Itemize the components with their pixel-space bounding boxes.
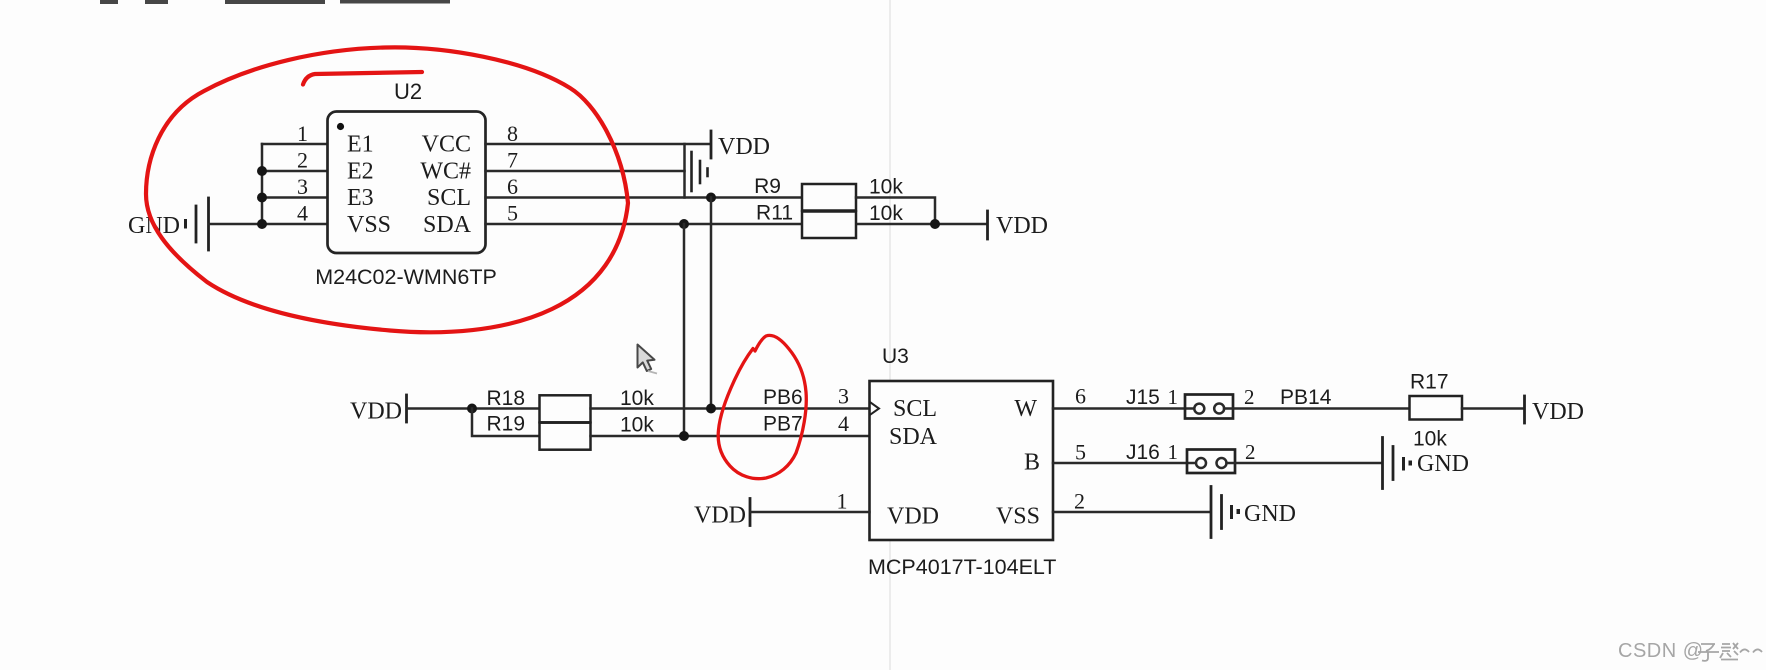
resistor R11 body bbox=[802, 212, 856, 239]
resistor R18 body bbox=[540, 395, 591, 422]
node PB6/SCL bus junction bbox=[706, 404, 716, 414]
red annotation underline stroke bbox=[303, 72, 422, 85]
wire VDD to R18 bbox=[408, 407, 540, 410]
chip U3 body bbox=[870, 381, 1054, 540]
svg-text:VDD: VDD bbox=[718, 134, 770, 160]
svg-text:GND: GND bbox=[1417, 451, 1469, 477]
wire WC# pin 7 bbox=[486, 170, 685, 173]
chip U2 body bbox=[328, 112, 486, 254]
svg-text:2: 2 bbox=[1244, 385, 1255, 409]
svg-text:U3: U3 bbox=[882, 345, 909, 368]
resistor R9 body bbox=[802, 184, 856, 211]
svg-text:J15: J15 bbox=[1126, 386, 1160, 409]
svg-text:2: 2 bbox=[1245, 440, 1256, 464]
svg-text:E3: E3 bbox=[347, 185, 374, 211]
wire U3 W pin 6 to J15 bbox=[1053, 407, 1196, 410]
svg-text:1: 1 bbox=[1168, 440, 1179, 464]
tildes bbox=[1740, 649, 1762, 652]
svg-text:E1: E1 bbox=[347, 132, 374, 158]
junction dot pin3 tie bbox=[257, 193, 267, 203]
svg-text:1: 1 bbox=[1168, 385, 1179, 409]
svg-text:VDD: VDD bbox=[887, 504, 939, 530]
jumper J16 body bbox=[1187, 450, 1235, 474]
svg-text:VDD: VDD bbox=[1532, 399, 1584, 425]
wire R9 out bbox=[856, 198, 935, 225]
svg-text:E2: E2 bbox=[347, 159, 374, 185]
power VDD (pull-ups) bbox=[988, 211, 1049, 239]
svg-text:R19: R19 bbox=[486, 413, 525, 436]
red annotation loop around PB6/PB7 bbox=[718, 335, 806, 478]
svg-text:5: 5 bbox=[507, 201, 518, 226]
glyph zi bbox=[1698, 644, 1719, 661]
svg-text:U2: U2 bbox=[394, 79, 422, 104]
glyph fan bbox=[1720, 643, 1738, 660]
power VDD (U3 pin1) bbox=[694, 499, 750, 529]
svg-text:5: 5 bbox=[1075, 440, 1086, 465]
wire U2 pin 2 stub bbox=[262, 170, 328, 173]
wire U3 B pin 5 to J16 bbox=[1053, 462, 1198, 465]
svg-text:PB7: PB7 bbox=[763, 413, 803, 436]
svg-text:R11: R11 bbox=[756, 202, 793, 225]
svg-text:R17: R17 bbox=[1410, 371, 1449, 394]
svg-text:1: 1 bbox=[297, 121, 308, 146]
svg-text:2: 2 bbox=[1074, 489, 1085, 514]
wire VDD drop to R19 bbox=[472, 409, 540, 437]
wire SCL bus down to PB6 row bbox=[710, 198, 713, 409]
wire R17 to VDD bbox=[1462, 407, 1524, 410]
svg-text:R9: R9 bbox=[754, 175, 781, 198]
svg-text:4: 4 bbox=[297, 201, 308, 226]
node SCL junction bbox=[706, 193, 716, 203]
svg-text:VSS: VSS bbox=[347, 212, 391, 238]
svg-text:3: 3 bbox=[297, 174, 308, 199]
ground GND (left, U2 VSS net) bbox=[128, 198, 209, 250]
svg-text:PB6: PB6 bbox=[763, 386, 803, 409]
faint video divider line bbox=[889, 0, 891, 670]
svg-text:6: 6 bbox=[1075, 384, 1086, 409]
wire R19 to U3 SDA (PB7 net) bbox=[591, 435, 870, 438]
svg-text:8: 8 bbox=[507, 121, 518, 146]
svg-text:6: 6 bbox=[507, 174, 518, 199]
J15 pad circles bbox=[1194, 404, 1204, 414]
J16 pad circles bbox=[1196, 458, 1206, 468]
power VDD (R18/R19 feed) bbox=[350, 395, 407, 425]
node VDD split bbox=[467, 404, 477, 414]
svg-text:2: 2 bbox=[297, 148, 308, 173]
svg-text:10k: 10k bbox=[620, 414, 654, 437]
svg-text:R18: R18 bbox=[486, 387, 525, 410]
resistor R17 body bbox=[1410, 396, 1463, 420]
wire VDD to U3 pin 1 bbox=[751, 511, 870, 514]
svg-text:M24C02-WMN6TP: M24C02-WMN6TP bbox=[315, 265, 497, 289]
power VDD (R17) bbox=[1525, 396, 1585, 425]
svg-text:1: 1 bbox=[837, 489, 848, 514]
CSDN watermark bbox=[1618, 640, 1762, 662]
cropped text artifact along top edge bbox=[100, 0, 450, 4]
svg-text:MCP4017T-104ELT: MCP4017T-104ELT bbox=[868, 555, 1056, 579]
wire VCC pin 8 to VDD bbox=[486, 143, 711, 146]
node SDA junction bbox=[679, 219, 689, 229]
wire U2 pin 1 stub bbox=[262, 143, 328, 146]
wire SCL pin 6 row bbox=[486, 196, 803, 199]
wire SDA pin 5 row bbox=[486, 223, 987, 226]
svg-text:7: 7 bbox=[507, 148, 518, 173]
wire tie E1/E2/E3 to VSS bbox=[261, 144, 264, 224]
wire SDA bus down to PB7 row bbox=[683, 224, 686, 436]
svg-text:CSDN @: CSDN @ bbox=[1618, 640, 1704, 662]
wire VCC drop to SCL row bbox=[683, 144, 686, 198]
wire J16 pin2 to GND bbox=[1227, 462, 1383, 465]
U2 pin-1 orientation dot bbox=[337, 123, 344, 130]
ground GND (J16) bbox=[1383, 438, 1470, 489]
wire R18 to U3 SCL (PB6 net) bbox=[591, 407, 870, 410]
node PB7/SDA bus junction bbox=[679, 431, 689, 441]
svg-text:J16: J16 bbox=[1126, 441, 1160, 464]
svg-text:4: 4 bbox=[838, 411, 849, 436]
junction dot pin2 tie bbox=[257, 166, 267, 176]
svg-text:SDA: SDA bbox=[889, 424, 938, 450]
U3 clock chevron on SCL bbox=[871, 403, 880, 415]
ground GND (U3 VSS) bbox=[1211, 487, 1296, 538]
svg-text:GND: GND bbox=[1244, 501, 1296, 527]
svg-text:WC#: WC# bbox=[420, 159, 471, 185]
svg-text:SCL: SCL bbox=[427, 185, 471, 211]
jumper J15 body bbox=[1185, 395, 1233, 419]
svg-text:VDD: VDD bbox=[996, 213, 1048, 239]
wire GND to U2 VSS pin 4 bbox=[209, 223, 328, 226]
svg-text:VSS: VSS bbox=[996, 504, 1040, 530]
ground symbol at WC# bbox=[692, 152, 708, 191]
svg-text:W: W bbox=[1014, 396, 1037, 422]
svg-text:VDD: VDD bbox=[694, 503, 746, 529]
svg-text:10k: 10k bbox=[1413, 428, 1447, 451]
svg-text:B: B bbox=[1024, 450, 1040, 476]
svg-text:SDA: SDA bbox=[423, 212, 472, 238]
wire U3 VSS pin 2 to GND bbox=[1053, 511, 1210, 514]
svg-text:SCL: SCL bbox=[893, 396, 937, 422]
resistor R19 body bbox=[540, 423, 591, 450]
svg-text:3: 3 bbox=[838, 384, 849, 409]
mouse cursor bbox=[638, 345, 658, 374]
svg-text:PB14: PB14 bbox=[1280, 386, 1332, 409]
svg-text:10k: 10k bbox=[869, 176, 903, 199]
junction dot pin4 tie bbox=[257, 219, 267, 229]
power VDD (U2 VCC) bbox=[711, 131, 770, 160]
node R9/R11 join bbox=[930, 219, 940, 229]
svg-text:10k: 10k bbox=[620, 387, 654, 410]
wire J15 pin2 to R17 bbox=[1224, 407, 1410, 410]
svg-text:VDD: VDD bbox=[350, 399, 402, 425]
svg-text:VCC: VCC bbox=[422, 132, 471, 158]
red annotation ellipse around U2 bbox=[146, 47, 628, 332]
svg-text:10k: 10k bbox=[869, 202, 903, 225]
wire U2 pin 3 stub bbox=[262, 196, 328, 199]
